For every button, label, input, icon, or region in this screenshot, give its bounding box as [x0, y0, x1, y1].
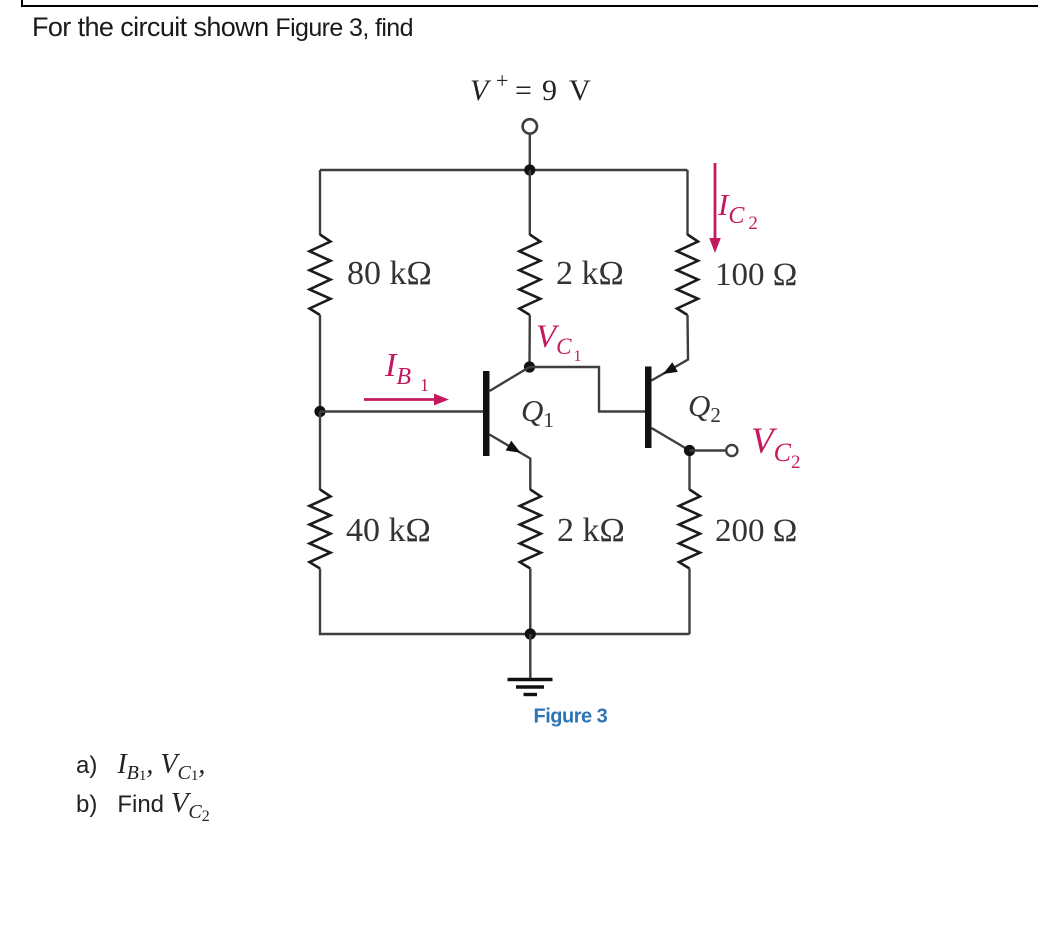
- wire node to ground: [529, 634, 531, 678]
- Q2 collector lead: [652, 428, 690, 490]
- wire 200 ohm to bottom rail: [688, 569, 690, 635]
- resistor 40 kOhm: [310, 490, 331, 569]
- node VC1: [524, 361, 535, 372]
- supply terminal circle: [523, 119, 537, 133]
- wire top rail to 80k: [319, 170, 321, 235]
- top frame rule: [21, 5, 1038, 8]
- current arrow IC2: [714, 163, 717, 241]
- Q1 emitter lead: [490, 435, 531, 491]
- node at supply on top rail: [524, 164, 535, 175]
- svg-text:100 Ω: 100 Ω: [715, 257, 797, 293]
- question b: [76, 787, 210, 826]
- wire 2k to VC1 node: [528, 315, 531, 367]
- node bottom rail: [525, 628, 536, 639]
- svg-text:VC1: VC1: [536, 319, 582, 365]
- wire node to VC2 terminal: [690, 449, 726, 451]
- svg-text:2 kΩ: 2 kΩ: [557, 512, 625, 549]
- wire top rail to 100 ohm: [686, 170, 688, 235]
- top frame left tick: [21, 0, 23, 7]
- wire 40k to bottom rail: [320, 569, 690, 635]
- svg-text:Q2: Q2: [688, 388, 721, 427]
- Q2 emitter arrowhead: [663, 362, 678, 374]
- transistor Q2 bar: [645, 367, 652, 449]
- transistor Q1 bar: [483, 371, 490, 456]
- svg-text:V+=9V: V+=9V: [470, 68, 591, 107]
- ground symbol: [508, 680, 553, 695]
- title text: [32, 12, 413, 43]
- svg-text:Figure 3: Figure 3: [534, 706, 608, 728]
- resistor 200 Ohm: [679, 490, 700, 569]
- VC2 terminal circle: [726, 445, 737, 456]
- base wire to Q1: [320, 410, 483, 412]
- Q1 emitter arrowhead: [506, 441, 521, 453]
- resistor 2 kOhm top: [519, 235, 540, 316]
- wire node to 40k: [319, 412, 321, 491]
- svg-text:2 kΩ: 2 kΩ: [556, 255, 624, 292]
- current arrow IB1: [364, 398, 437, 401]
- wire top rail to 2k top: [529, 170, 531, 235]
- Q1 collector lead: [490, 367, 530, 391]
- question a: [76, 749, 205, 785]
- wire 2k bottom to rail: [529, 569, 531, 635]
- wire 100 ohm to Q2 emitter: [652, 315, 689, 381]
- svg-text:40 kΩ: 40 kΩ: [346, 512, 431, 549]
- svg-text:80 kΩ: 80 kΩ: [347, 255, 432, 292]
- resistor 100 Ohm: [677, 235, 698, 316]
- node VC2: [684, 445, 695, 456]
- svg-text:VC2: VC2: [751, 421, 800, 473]
- svg-text:200 Ω: 200 Ω: [715, 513, 797, 549]
- resistor 80 kOhm: [310, 235, 331, 316]
- wire VC1 to Q2 base: [530, 367, 646, 412]
- wire 80k to base node: [319, 315, 321, 412]
- top rail wire: [320, 169, 688, 171]
- svg-text:IC2: IC2: [717, 187, 758, 234]
- svg-text:IB1: IB1: [384, 347, 429, 395]
- resistor 2 kOhm bottom: [520, 490, 541, 569]
- svg-text:Q1: Q1: [521, 393, 554, 432]
- node base divider: [314, 406, 325, 417]
- wire terminal to top rail: [529, 133, 531, 170]
